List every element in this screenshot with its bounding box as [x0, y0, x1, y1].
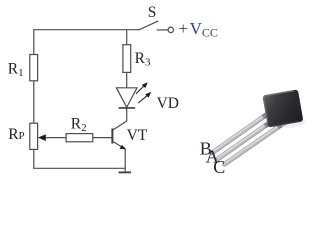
- svg-text:VD: VD: [157, 95, 179, 112]
- TO-92 leg A: [218, 117, 277, 159]
- switch S terminal circle: [168, 27, 173, 32]
- TO-92 leg C: [224, 122, 284, 164]
- LED arrow 2: [138, 92, 151, 103]
- LED arrow 1: [136, 82, 148, 94]
- LED VD cathode bar: [119, 107, 136, 109]
- transistor VT emitter with arrow: [113, 142, 123, 148]
- RP wiper arrow: [38, 134, 46, 141]
- wire RP bottom to bottom rail: [33, 149, 35, 168]
- svg-text:R1: R1: [8, 61, 24, 80]
- wire emitter vertical to ground: [124, 149, 126, 173]
- resistor R1: [30, 55, 38, 81]
- ground: [119, 171, 132, 173]
- TO-92 body shadow wedges on legs: [263, 115, 281, 127]
- wire LED cathode to collector: [126, 108, 128, 121]
- svg-text:RP: RP: [8, 126, 24, 143]
- svg-text:VT: VT: [127, 127, 148, 144]
- wire R1 bottom to RP top: [33, 81, 35, 123]
- transistor VT collector diagonal: [113, 121, 127, 130]
- TO-92 leg B: [212, 111, 271, 153]
- switch S blade: [139, 21, 158, 30]
- svg-text:R3: R3: [135, 50, 151, 69]
- resistor R3: [123, 45, 131, 73]
- svg-text:C: C: [213, 157, 225, 177]
- wire top rail: [34, 29, 139, 31]
- wire bottom rail: [33, 167, 125, 169]
- svg-text:+VCC: +VCC: [178, 19, 217, 39]
- TO-92 package shadow: [282, 118, 307, 129]
- wire R3 bottom to LED: [126, 72, 128, 87]
- potentiometer RP: [30, 123, 38, 149]
- svg-text:S: S: [148, 4, 157, 21]
- TO-92 body: [262, 89, 303, 127]
- wire R2 to base: [93, 137, 112, 139]
- LED VD triangle: [116, 88, 137, 108]
- svg-text:R2: R2: [71, 116, 87, 135]
- wire RP wiper to R2: [45, 137, 67, 139]
- resistor R2: [66, 134, 93, 142]
- transistor VT base bar: [111, 129, 113, 144]
- wire left vertical from top rail to R1: [33, 29, 35, 54]
- wire R3 stub from top rail: [126, 30, 128, 45]
- switch S contact lead: [157, 29, 168, 31]
